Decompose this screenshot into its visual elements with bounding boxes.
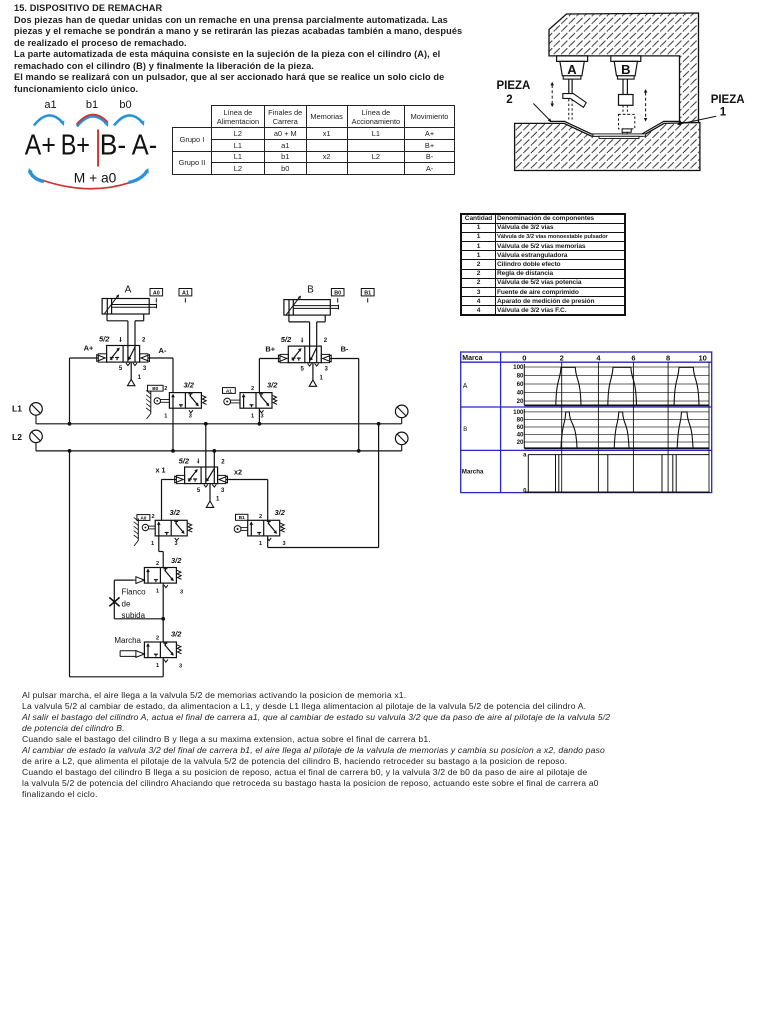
svg-text:b0: b0 bbox=[119, 99, 131, 111]
L2 line bbox=[36, 450, 402, 452]
svg-text:B1: B1 bbox=[239, 515, 245, 521]
a1 label box bbox=[223, 388, 236, 394]
wire A- pilot bbox=[148, 357, 173, 359]
svg-text:x2: x2 bbox=[234, 468, 242, 477]
a0 roller and wall bbox=[142, 524, 148, 530]
stroke arrow A bbox=[551, 85, 553, 104]
svg-text:1: 1 bbox=[164, 413, 167, 419]
svg-text:1: 1 bbox=[251, 413, 254, 419]
svg-text:1: 1 bbox=[156, 663, 159, 669]
valve B pilot boxes bbox=[280, 354, 288, 362]
svg-text:5/2: 5/2 bbox=[99, 335, 110, 344]
svg-text:A-: A- bbox=[132, 130, 157, 162]
node flanco loop to marcha wire bbox=[161, 617, 165, 621]
signal B bbox=[561, 412, 577, 448]
svg-text:40: 40 bbox=[517, 390, 524, 397]
svg-text:A+: A+ bbox=[84, 344, 94, 353]
memory valve exhaust bbox=[209, 484, 211, 501]
svg-text:1: 1 bbox=[151, 541, 154, 547]
3/2 valve marcha (pulsador) bbox=[144, 642, 176, 658]
svg-text:3/2: 3/2 bbox=[171, 556, 182, 565]
svg-text:3: 3 bbox=[179, 664, 182, 670]
svg-text:3: 3 bbox=[221, 488, 225, 494]
flanco pilot actuator bbox=[136, 577, 145, 584]
node L1 memory feed bbox=[204, 422, 208, 426]
wire x1 pilot bbox=[162, 479, 177, 481]
3/2 valve flanco de subida bbox=[144, 568, 176, 584]
svg-text:100: 100 bbox=[513, 364, 524, 371]
wire A+ pilot from left bus bbox=[70, 357, 99, 359]
svg-text:2: 2 bbox=[251, 386, 254, 392]
left bus upper bbox=[69, 358, 71, 424]
svg-text:1: 1 bbox=[138, 375, 142, 381]
svg-text:3/2: 3/2 bbox=[275, 508, 286, 517]
svg-text:PIEZA: PIEZA bbox=[711, 94, 745, 106]
b0 label box bbox=[148, 385, 164, 391]
regla de distancia B0 bbox=[331, 289, 344, 296]
svg-text:PIEZA: PIEZA bbox=[497, 80, 531, 92]
cylinder A body bbox=[557, 56, 588, 62]
svg-text:80: 80 bbox=[517, 373, 524, 380]
svg-text:4: 4 bbox=[596, 353, 601, 362]
svg-text:B: B bbox=[621, 62, 630, 77]
valve A exhaust bbox=[130, 362, 132, 379]
cylinder B rod and riveting tool bbox=[622, 79, 624, 94]
wire L2 to memory valve port2 bbox=[213, 451, 215, 467]
regla de distancia A0 bbox=[150, 289, 163, 296]
svg-text:1: 1 bbox=[720, 107, 727, 119]
node L2 B- bbox=[357, 449, 361, 453]
svg-text:B-: B- bbox=[341, 345, 349, 354]
svg-text:8: 8 bbox=[666, 353, 670, 362]
svg-text:a: a bbox=[523, 453, 527, 459]
svg-text:10: 10 bbox=[699, 353, 707, 362]
svg-text:de: de bbox=[122, 600, 131, 609]
L1 line bbox=[36, 423, 402, 425]
svg-text:3: 3 bbox=[325, 366, 329, 372]
chart frame bbox=[461, 352, 712, 493]
workpiece strip bbox=[550, 121, 681, 134]
svg-text:3/2: 3/2 bbox=[170, 508, 181, 517]
wire b0 port1 to L2 bbox=[172, 408, 174, 451]
svg-text:B: B bbox=[307, 285, 314, 296]
svg-text:subida: subida bbox=[122, 611, 146, 620]
svg-text:2: 2 bbox=[560, 353, 564, 362]
3/2 limit valve b1 bbox=[248, 520, 280, 536]
svg-text:A0: A0 bbox=[140, 515, 146, 521]
a0 label box bbox=[137, 515, 150, 521]
left bus lower from L2 bbox=[68, 449, 72, 453]
svg-text:2: 2 bbox=[156, 635, 159, 641]
L1 source right bbox=[395, 405, 408, 418]
node L2 memory feed bbox=[212, 449, 216, 453]
svg-text:1: 1 bbox=[320, 375, 324, 381]
L2 source right bbox=[395, 432, 408, 445]
wire B+ pilot bbox=[259, 358, 280, 360]
5/2 memory valve (valvula de memorias) bbox=[185, 467, 218, 484]
cylinder B body bbox=[611, 56, 641, 62]
wire x2 pilot bbox=[226, 479, 268, 481]
svg-text:A: A bbox=[567, 62, 577, 77]
a1 roller actuator bbox=[224, 398, 231, 405]
5/2 power valve A (U-A) bbox=[107, 346, 140, 363]
cylinder A rod bbox=[568, 79, 570, 94]
svg-text:80: 80 bbox=[517, 417, 524, 424]
svg-text:3/2: 3/2 bbox=[267, 380, 278, 389]
wire cylinder B to valve bbox=[309, 322, 311, 346]
wire flanco port1 to marcha port2 bbox=[162, 583, 164, 642]
clamp finger bbox=[563, 94, 586, 108]
L1 source left (fuente de aire comprimido) bbox=[30, 403, 43, 416]
3/2 limit valve a1 bbox=[240, 393, 272, 409]
wire marcha port1 to bottom rail bbox=[162, 658, 164, 677]
right bus from L1 bbox=[377, 422, 381, 426]
5/2 power valve B (U-B) bbox=[288, 346, 321, 363]
svg-text:B1: B1 bbox=[364, 290, 371, 296]
svg-text:A1: A1 bbox=[226, 388, 232, 394]
svg-text:2: 2 bbox=[221, 460, 225, 466]
press frame bottom block bbox=[515, 123, 700, 171]
b1 roller actuator bbox=[234, 526, 241, 533]
svg-text:5: 5 bbox=[301, 366, 305, 372]
press frame top block bbox=[549, 13, 699, 123]
svg-text:b1: b1 bbox=[86, 99, 98, 111]
svg-text:3: 3 bbox=[260, 413, 263, 419]
signal A bbox=[556, 367, 581, 405]
wire b1 port1 to right bus bbox=[267, 536, 269, 548]
svg-text:M + a0: M + a0 bbox=[74, 170, 117, 185]
svg-text:1: 1 bbox=[156, 588, 159, 594]
wire cylinder A to valve bbox=[127, 321, 129, 346]
svg-text:3: 3 bbox=[174, 541, 177, 547]
regla de distancia A1 bbox=[179, 289, 192, 296]
svg-text:3: 3 bbox=[180, 590, 183, 596]
svg-text:2: 2 bbox=[164, 386, 167, 392]
svg-text:3: 3 bbox=[189, 413, 192, 419]
svg-text:5/2: 5/2 bbox=[281, 335, 292, 344]
svg-text:2: 2 bbox=[156, 561, 159, 567]
stroke arrow B bbox=[645, 93, 647, 119]
svg-text:60: 60 bbox=[517, 381, 524, 388]
svg-text:B-: B- bbox=[100, 130, 126, 162]
regla de distancia B1 bbox=[361, 289, 374, 296]
b1 label box bbox=[236, 514, 248, 520]
svg-text:B0: B0 bbox=[334, 290, 341, 296]
wire L1 to memory valve port4 bbox=[205, 424, 207, 467]
marcha push button actuator bbox=[136, 651, 145, 658]
bottom rail to left bus bbox=[70, 676, 164, 678]
svg-text:a1: a1 bbox=[44, 99, 56, 111]
svg-text:3: 3 bbox=[143, 366, 147, 372]
svg-text:0: 0 bbox=[522, 353, 526, 362]
svg-text:20: 20 bbox=[517, 398, 524, 405]
wire a1 port1 to L1 bbox=[258, 408, 260, 424]
svg-text:B+: B+ bbox=[265, 344, 275, 353]
svg-text:6: 6 bbox=[631, 353, 635, 362]
X mark on flanco loop bbox=[109, 597, 119, 606]
node L2 b0 bbox=[171, 449, 175, 453]
svg-text:2: 2 bbox=[324, 338, 328, 344]
svg-text:B+: B+ bbox=[61, 130, 90, 162]
svg-text:B0: B0 bbox=[152, 386, 158, 392]
svg-text:A+: A+ bbox=[25, 130, 56, 162]
svg-text:1: 1 bbox=[216, 496, 220, 502]
3/2 limit valve a0 bbox=[155, 520, 187, 536]
svg-text:Marcha: Marcha bbox=[114, 636, 141, 645]
svg-text:Flanco: Flanco bbox=[122, 587, 147, 596]
svg-text:0: 0 bbox=[523, 489, 527, 495]
L2 source left bbox=[30, 430, 43, 443]
svg-text:100: 100 bbox=[513, 409, 524, 416]
svg-text:3/2: 3/2 bbox=[171, 630, 182, 639]
svg-text:40: 40 bbox=[517, 432, 524, 439]
vertical gridlines bbox=[561, 362, 563, 492]
flanco feedback loop wire bbox=[114, 579, 133, 581]
svg-text:60: 60 bbox=[517, 424, 524, 431]
svg-text:L2: L2 bbox=[12, 432, 22, 442]
node L1 left bus bbox=[68, 422, 72, 426]
b0 roller and wall bbox=[154, 398, 160, 404]
svg-text:1: 1 bbox=[259, 541, 262, 547]
svg-text:x 1: x 1 bbox=[156, 466, 166, 475]
valve B exhaust bbox=[312, 363, 314, 380]
svg-text:A: A bbox=[125, 285, 132, 296]
svg-text:2: 2 bbox=[142, 338, 146, 344]
svg-text:5/2: 5/2 bbox=[179, 457, 190, 466]
svg-text:20: 20 bbox=[517, 439, 524, 446]
valve A pilot boxes bbox=[98, 354, 106, 362]
3/2 limit valve b0 bbox=[169, 393, 201, 409]
svg-text:A-: A- bbox=[159, 346, 167, 355]
wire a0 port1 to flanco valve bbox=[158, 536, 160, 552]
svg-text:2: 2 bbox=[259, 514, 262, 520]
pieza plates and rivet bbox=[593, 134, 646, 136]
svg-text:L1: L1 bbox=[12, 404, 22, 414]
svg-text:2: 2 bbox=[506, 94, 512, 106]
svg-text:A0: A0 bbox=[153, 290, 160, 296]
node L1 a1 bbox=[258, 422, 262, 426]
svg-text:3/2: 3/2 bbox=[184, 380, 195, 389]
wire B- pilot bbox=[330, 358, 359, 360]
svg-text:A1: A1 bbox=[182, 290, 189, 296]
svg-text:5: 5 bbox=[119, 366, 123, 372]
svg-text:2: 2 bbox=[151, 514, 154, 520]
svg-text:5: 5 bbox=[197, 488, 201, 494]
svg-text:3: 3 bbox=[282, 541, 285, 547]
memory valve pilot boxes x1/x2 bbox=[176, 475, 184, 483]
